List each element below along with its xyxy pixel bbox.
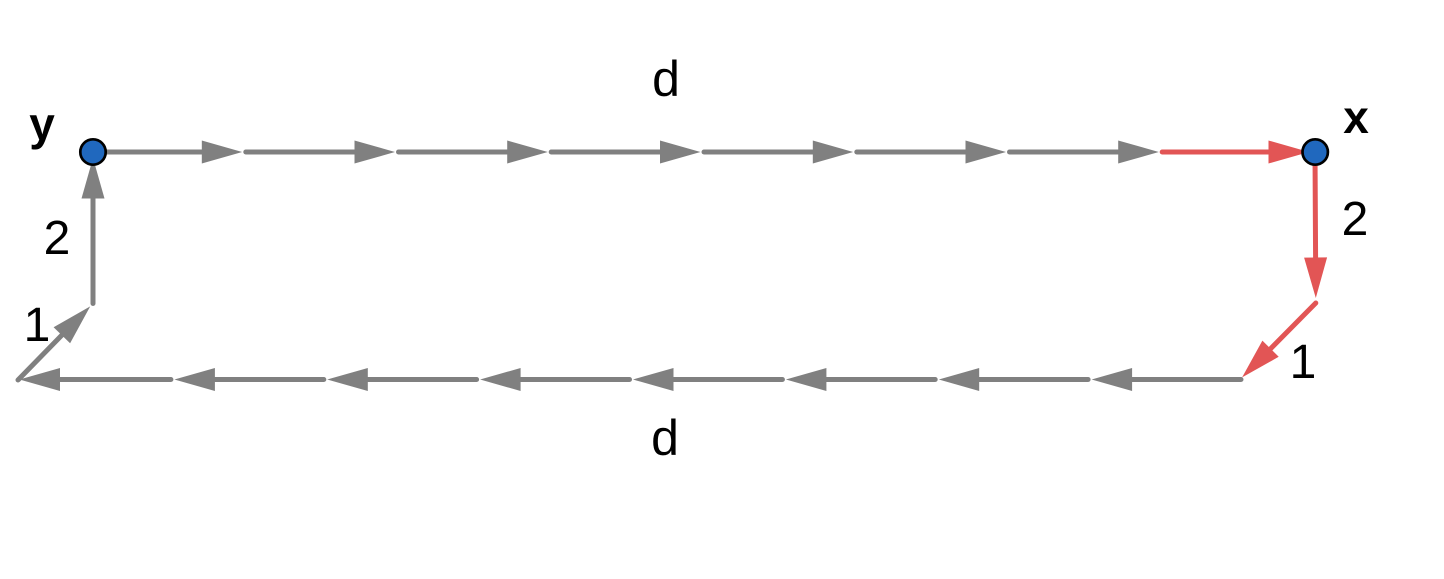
top edge 5 (gray, right) [704,141,853,164]
gray edge "1" (diagonal up from bottom-left) [18,306,90,380]
bottom edge 6 (gray, left) [327,368,476,391]
bottom edge 5 (gray, left) [480,368,629,391]
bottom edge 1 (gray, left) [1092,368,1241,391]
bottom edge 4 (gray, left) [633,368,782,391]
svg-text:d: d [652,51,680,107]
svg-text:2: 2 [44,212,71,265]
red edge "2" (node x down) [1304,152,1327,298]
bottom edge 3 (gray, left) [786,368,935,391]
top edge 8 (red, into node x) [1162,141,1309,164]
gray edge "2" (up into node y) [82,158,105,304]
svg-text:d: d [651,410,679,466]
svg-text:2: 2 [1342,193,1369,246]
node y (blue) [80,139,105,164]
svg-text:1: 1 [24,299,51,352]
top edge 1 (gray, right) [93,141,242,164]
svg-text:1: 1 [1290,336,1317,389]
top edge 7 (gray, right) [1010,141,1159,164]
top edge 2 (gray, right) [246,141,395,164]
top edge 3 (gray, right) [399,141,548,164]
svg-text:x: x [1343,91,1369,143]
red edge "1" (diagonal to bottom row) [1242,303,1316,377]
node x (blue) [1303,139,1328,164]
top edge 4 (gray, right) [551,141,700,164]
top edge 6 (gray, right) [857,141,1006,164]
bottom edge 7 (gray, left) [174,368,323,391]
bottom edge 8 (gray, left) [20,368,171,391]
bottom edge 2 (gray, left) [939,368,1088,391]
svg-text:y: y [29,98,55,150]
